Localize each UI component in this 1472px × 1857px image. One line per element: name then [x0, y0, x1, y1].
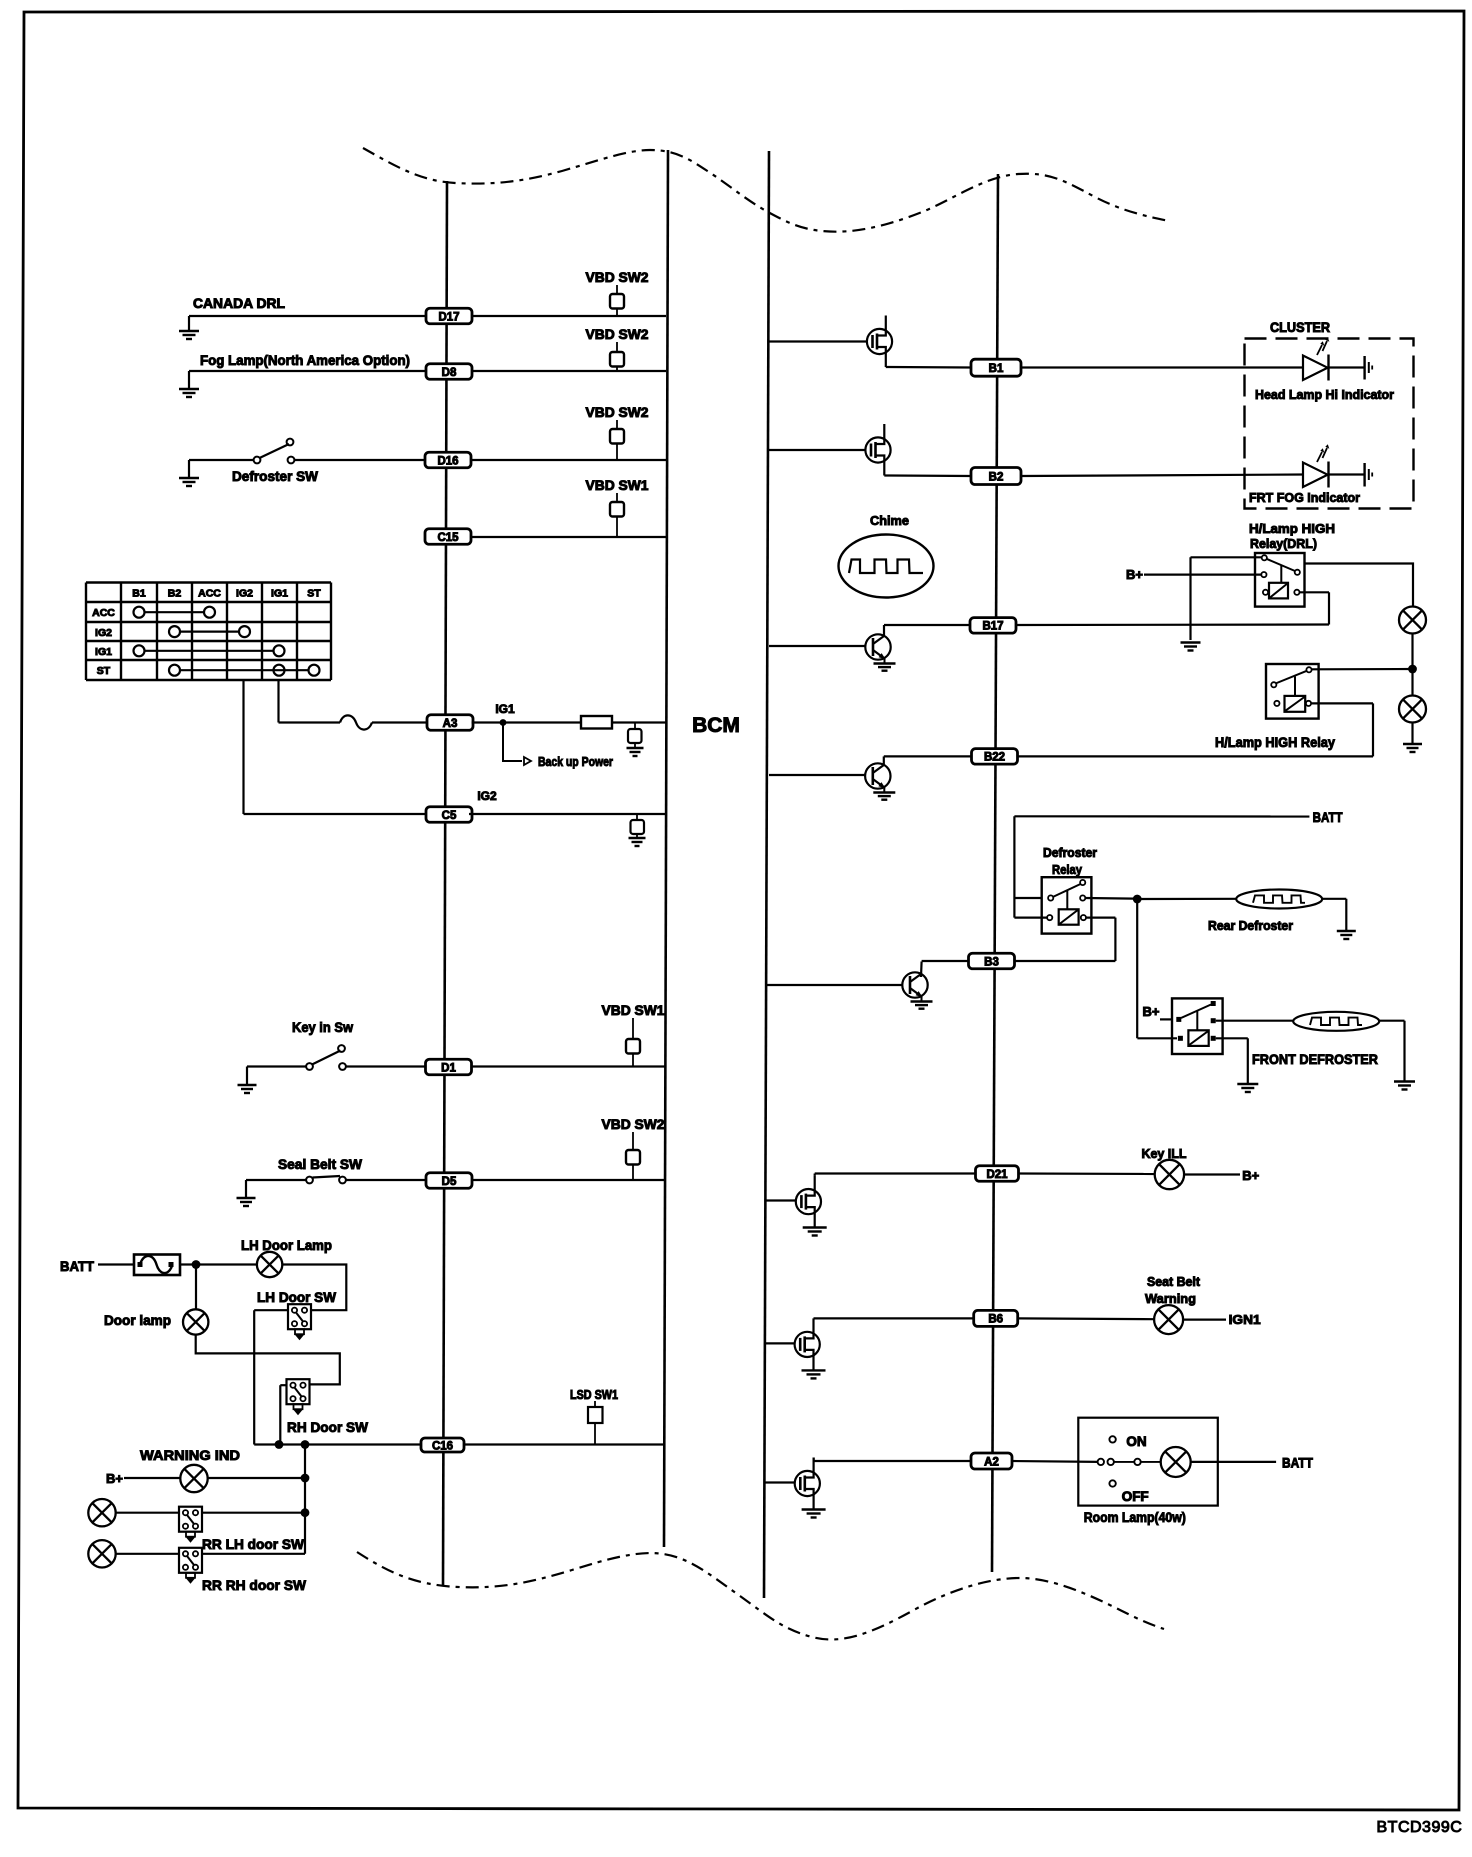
svg-text:ON: ON	[1126, 1434, 1146, 1449]
svg-text:D5: D5	[442, 1176, 457, 1188]
svg-text:B2: B2	[989, 471, 1004, 483]
svg-text:RR RH door SW: RR RH door SW	[202, 1577, 307, 1593]
svg-text:IG2: IG2	[477, 789, 497, 803]
svg-text:B22: B22	[984, 752, 1005, 764]
svg-text:A2: A2	[984, 1456, 999, 1468]
svg-text:BATT: BATT	[1282, 1456, 1314, 1471]
svg-text:VBD SW1: VBD SW1	[602, 1003, 665, 1018]
svg-text:C5: C5	[442, 810, 457, 822]
svg-text:Door lamp: Door lamp	[104, 1312, 171, 1328]
svg-text:Seal Belt SW: Seal Belt SW	[278, 1156, 363, 1172]
svg-text:IG2: IG2	[236, 588, 253, 600]
svg-text:B1: B1	[132, 588, 146, 600]
svg-text:B2: B2	[168, 588, 182, 600]
svg-text:IG2: IG2	[95, 627, 112, 639]
svg-text:IG1: IG1	[95, 646, 112, 658]
svg-text:LH Door SW: LH Door SW	[257, 1289, 337, 1305]
svg-text:Room Lamp(40w): Room Lamp(40w)	[1084, 1510, 1186, 1525]
svg-text:VBD SW2: VBD SW2	[586, 270, 649, 285]
svg-text:D17: D17	[438, 311, 459, 323]
svg-text:Relay: Relay	[1052, 863, 1082, 877]
svg-text:B+: B+	[1242, 1168, 1259, 1183]
svg-text:BATT: BATT	[1313, 810, 1344, 825]
svg-text:Defroster SW: Defroster SW	[232, 468, 319, 484]
svg-text:C16: C16	[432, 1440, 453, 1452]
svg-text:D1: D1	[441, 1062, 456, 1074]
svg-text:VBD SW1: VBD SW1	[586, 478, 649, 493]
svg-text:A3: A3	[443, 718, 458, 730]
svg-text:B+: B+	[1126, 567, 1143, 582]
svg-text:BCM: BCM	[692, 714, 740, 737]
svg-text:RH Door SW: RH Door SW	[287, 1419, 369, 1435]
svg-text:OFF: OFF	[1122, 1489, 1149, 1504]
svg-text:LH Door Lamp: LH Door Lamp	[241, 1237, 332, 1253]
svg-text:VBD SW2: VBD SW2	[586, 405, 649, 420]
svg-text:D16: D16	[437, 455, 458, 467]
svg-text:C15: C15	[437, 532, 459, 544]
svg-text:LSD SW1: LSD SW1	[570, 1388, 618, 1402]
svg-text:Key ILL: Key ILL	[1142, 1146, 1187, 1161]
svg-text:B3: B3	[984, 956, 999, 968]
svg-text:Rear Defroster: Rear Defroster	[1208, 918, 1293, 933]
svg-text:D8: D8	[442, 367, 457, 379]
svg-text:B+: B+	[1143, 1004, 1160, 1019]
svg-text:B6: B6	[988, 1314, 1003, 1326]
svg-text:CANADA DRL: CANADA DRL	[193, 295, 285, 311]
svg-text:BATT: BATT	[60, 1258, 94, 1274]
svg-text:RR LH door SW: RR LH door SW	[202, 1536, 305, 1552]
svg-text:FRT FOG Indicator: FRT FOG Indicator	[1249, 490, 1360, 505]
svg-text:ST: ST	[307, 588, 321, 600]
svg-text:B+: B+	[106, 1471, 123, 1486]
svg-text:B17: B17	[982, 621, 1003, 633]
svg-text:FRONT DEFROSTER: FRONT DEFROSTER	[1252, 1051, 1378, 1067]
svg-text:Fog Lamp(North America Option): Fog Lamp(North America Option)	[200, 352, 410, 368]
svg-text:IG1: IG1	[271, 588, 288, 600]
svg-text:ACC: ACC	[92, 607, 115, 619]
svg-text:Seat Belt: Seat Belt	[1147, 1274, 1201, 1289]
svg-text:H/Lamp HIGH Relay: H/Lamp HIGH Relay	[1215, 735, 1335, 750]
svg-text:Key in Sw: Key in Sw	[292, 1019, 353, 1035]
svg-text:D21: D21	[986, 1169, 1008, 1181]
svg-text:ACC: ACC	[198, 588, 221, 600]
svg-text:B1: B1	[989, 363, 1004, 375]
svg-text:Relay(DRL): Relay(DRL)	[1250, 536, 1317, 551]
svg-text:IG1: IG1	[495, 702, 515, 716]
svg-text:BTCD399C: BTCD399C	[1377, 1819, 1463, 1836]
svg-text:WARNING IND: WARNING IND	[140, 1447, 240, 1463]
svg-text:VBD SW2: VBD SW2	[586, 327, 649, 342]
svg-text:ST: ST	[97, 665, 111, 677]
svg-text:Head Lamp Hi Indicator: Head Lamp Hi Indicator	[1255, 387, 1394, 402]
svg-text:Warning: Warning	[1145, 1291, 1196, 1306]
svg-text:CLUSTER: CLUSTER	[1270, 320, 1330, 335]
svg-text:IGN1: IGN1	[1229, 1312, 1261, 1327]
svg-text:VBD SW2: VBD SW2	[602, 1117, 665, 1132]
svg-text:Back up Power: Back up Power	[538, 755, 613, 769]
svg-text:Defroster: Defroster	[1043, 846, 1097, 860]
svg-text:H/Lamp HIGH: H/Lamp HIGH	[1249, 521, 1335, 536]
svg-text:Chime: Chime	[870, 513, 909, 528]
